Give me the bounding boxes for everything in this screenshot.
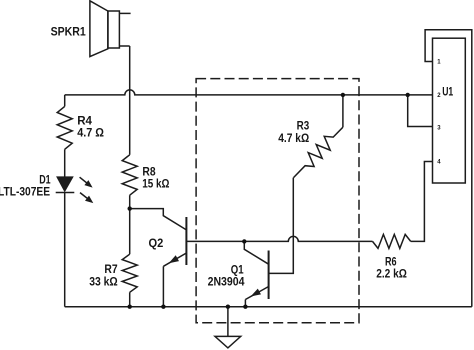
transistor Q1 [245,251,268,300]
node: Q1 emitter junction [243,305,247,309]
wire Q1 emitter to bottom rail [244,300,246,307]
resistor R3 (diagonal) [294,127,343,177]
wire R3 top to rail [342,95,344,127]
wire R7 to bottom rail [129,292,131,306]
svg-text:2.2 kΩ: 2.2 kΩ [376,267,407,281]
svg-text:4.7 kΩ: 4.7 kΩ [278,131,309,145]
wire Q2 emitter to bottom rail [162,266,164,306]
svg-text:LTL-307EE: LTL-307EE [0,184,50,198]
svg-text:4: 4 [437,160,441,166]
ground [215,307,241,348]
wire Q2 base / R6 line with hop over Q1 base vertical [186,236,372,241]
resistor R7 [122,254,137,292]
wire top rail with hop over speaker wire [65,90,433,95]
wire left rail top (rail to R4) [64,95,66,107]
svg-text:4.7 Ω: 4.7 Ω [77,125,104,139]
wire speaker to R8 (crosses top rail, no connection) [129,46,131,155]
resistor R6 [373,234,411,248]
node: Q1 collector junction [242,239,246,243]
svg-text:2: 2 [437,93,441,99]
wire R4 to D1 [64,149,66,177]
wire R6 to pin4 [411,162,433,242]
wire pin1 to ground loop (outer) [425,30,472,307]
node: R7 bottom junction [128,305,132,309]
wire R8 to R7 with junction to Q2 [129,195,131,254]
LED D1 [56,177,94,203]
svg-text:2N3904: 2N3904 [208,275,245,289]
svg-text:33 kΩ: 33 kΩ [89,275,118,289]
wire D1 to bottom rail [64,193,66,307]
speaker SPKR1 [90,1,131,57]
node: R8/R7/Q2 junction [128,206,132,210]
wire pin3 jumper from rail [408,95,433,127]
node: R3 top junction [341,93,345,97]
svg-text:SPKR1: SPKR1 [51,25,86,39]
dashed subcircuit box [196,79,359,323]
svg-text:15 kΩ: 15 kΩ [142,177,170,191]
wire junction to Q2 collector [130,209,187,230]
svg-text:3: 3 [437,126,441,132]
wire Q1 collector from base line [244,241,268,264]
connector U1 body [433,38,466,183]
svg-text:U1: U1 [442,87,453,99]
node: Q2 emitter junction [161,305,165,309]
transistor Q2 [163,217,186,266]
node: pin3 jumper junction [406,93,410,97]
svg-text:1: 1 [437,60,441,66]
svg-text:Q2: Q2 [149,236,164,250]
resistor R4 [57,106,72,149]
wire bottom rail [65,306,472,308]
resistor R8 [122,155,137,195]
wire Q1 base to R3 vertical [269,178,294,274]
node: ground junction [226,305,230,309]
